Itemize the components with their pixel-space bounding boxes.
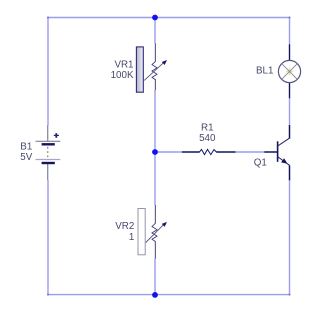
svg-text:Q1: Q1 — [254, 158, 267, 169]
svg-text:BL1: BL1 — [256, 66, 273, 77]
svg-text:5V: 5V — [20, 152, 32, 163]
svg-text:R1: R1 — [201, 123, 214, 134]
svg-text:100K: 100K — [111, 70, 134, 81]
svg-text:1: 1 — [129, 232, 134, 243]
svg-text:VR1: VR1 — [114, 60, 133, 71]
svg-text:VR2: VR2 — [115, 221, 134, 232]
svg-text:B1: B1 — [20, 141, 32, 152]
svg-text:540: 540 — [199, 133, 216, 144]
